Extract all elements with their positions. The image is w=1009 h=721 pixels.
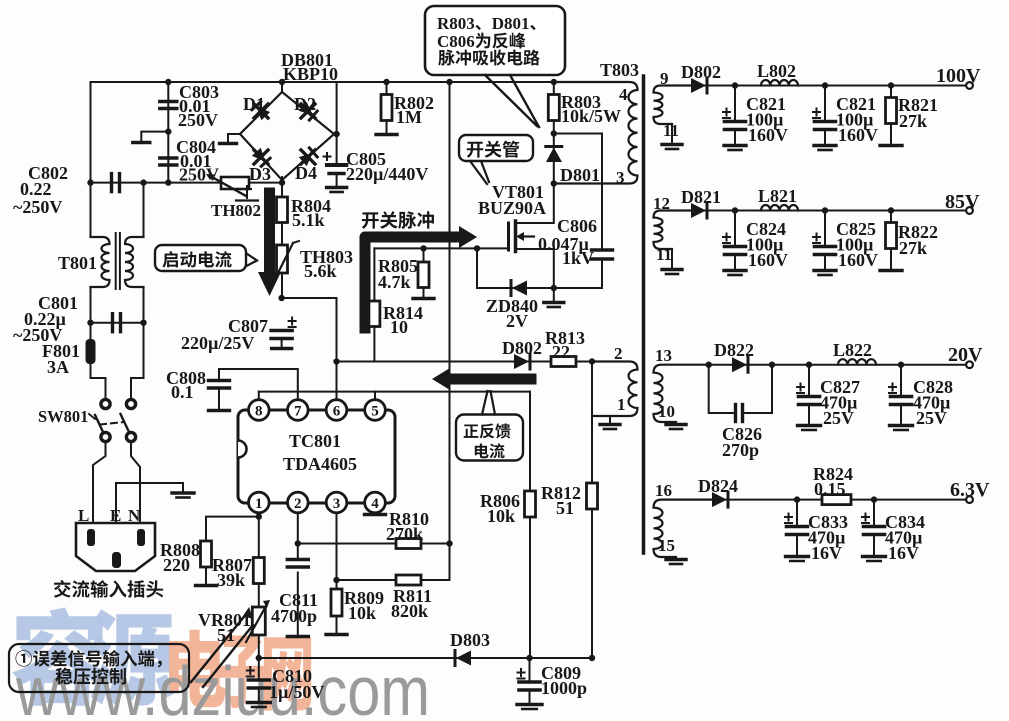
svg-text:D4: D4: [295, 163, 317, 183]
wire C803/C804 column: [167, 82, 169, 183]
pin 6: [326, 400, 347, 421]
svg-text:0.15: 0.15: [814, 479, 846, 499]
svg-text:11: 11: [656, 245, 672, 264]
svg-text:D802: D802: [502, 338, 542, 358]
watermark 源: [90, 609, 174, 706]
wire 6.3V rail: [712, 499, 966, 501]
svg-text:10k: 10k: [348, 603, 376, 623]
svg-text:D822: D822: [714, 340, 754, 360]
transistor VT801 MOSFET: [507, 223, 510, 250]
transformer T801 left winding: [91, 237, 110, 287]
wire R814 column: [373, 248, 375, 361]
svg-text:25V: 25V: [916, 408, 947, 428]
svg-text:51: 51: [217, 625, 235, 645]
ground C810: [247, 701, 270, 704]
svg-text:20V: 20V: [948, 344, 983, 366]
ground earth: [172, 491, 194, 494]
capacitor C804: [160, 156, 177, 159]
node dot R813 right: [589, 358, 595, 364]
switch SW801 dashed link: [100, 422, 124, 425]
resistor R822: [890, 211, 892, 223]
thermistor TH802: [221, 177, 249, 189]
svg-text:L: L: [78, 506, 89, 525]
svg-text:160V: 160V: [748, 250, 788, 270]
wire C810 stem: [258, 658, 260, 679]
ground R809: [336, 616, 338, 633]
capacitor C805: [327, 163, 346, 167]
diode D4: [299, 148, 317, 166]
callout 启动电流: [155, 245, 246, 271]
svg-text:220µ/25V: 220µ/25V: [181, 333, 254, 353]
transformer T803 core: [642, 76, 646, 553]
terminal 85V: [966, 207, 973, 214]
svg-text:27k: 27k: [899, 111, 927, 131]
transformer T803 primary winding 4-3: [554, 82, 638, 184]
svg-text:820k: 820k: [391, 601, 428, 621]
capacitor C807: [271, 329, 292, 333]
svg-text:270p: 270p: [722, 440, 759, 460]
svg-text:5.1k: 5.1k: [292, 210, 325, 230]
switch SW801 lower contacts: [101, 432, 110, 441]
capacitor C833: [796, 500, 798, 525]
node dot pin6 feedback: [333, 358, 339, 364]
capacitor C801: [111, 314, 114, 332]
wire C809 stem: [529, 658, 531, 681]
wire pin3 column: [336, 508, 338, 589]
wire R805 column: [423, 248, 425, 297]
wire bridge left ground link: [228, 134, 240, 142]
svg-text:D2: D2: [294, 94, 316, 114]
node dots C802 row: [87, 179, 93, 185]
ground bridge left: [220, 142, 237, 145]
svg-text:3: 3: [333, 496, 341, 512]
svg-text:3: 3: [616, 168, 625, 187]
resistor R810: [396, 539, 421, 549]
capacitor C834: [873, 500, 875, 525]
ground R822: [880, 269, 902, 272]
svg-text:160V: 160V: [748, 125, 788, 145]
svg-text:D803: D803: [450, 630, 490, 650]
resistor R814: [369, 301, 380, 327]
wire C807 to pin6 column: [282, 298, 337, 400]
wire top rail: [91, 81, 554, 83]
ground MOSFET source: [553, 288, 555, 301]
wire pin7 to C808: [219, 369, 298, 401]
svg-text:TH802: TH802: [211, 201, 261, 220]
diode D3: [252, 148, 270, 166]
pin 4: [365, 492, 386, 513]
AC plug outline: [76, 523, 155, 571]
svg-text:C806: C806: [557, 216, 597, 236]
svg-text:T803: T803: [600, 60, 639, 80]
svg-text:6: 6: [333, 404, 341, 420]
node dots R803: [551, 130, 557, 136]
capacitor C809: [519, 680, 540, 684]
svg-text:51: 51: [556, 498, 574, 518]
svg-text:R803: R803: [437, 14, 475, 33]
svg-text:250V: 250V: [178, 110, 218, 130]
op-amp U1 IC TC801 TDA4605 body: [238, 410, 395, 503]
annotation arrow start-current: [264, 193, 275, 273]
thermistor TH803: [277, 245, 288, 273]
wire winding1 ground lead: [609, 416, 611, 423]
ground C805: [327, 186, 347, 189]
svg-text:10: 10: [658, 402, 675, 421]
svg-text:2: 2: [294, 496, 302, 512]
svg-text:10k/5W: 10k/5W: [561, 106, 621, 126]
wire R811 row: [337, 544, 450, 581]
svg-text:D801: D801: [492, 14, 530, 33]
capacitor C826 branch: [709, 365, 733, 413]
wire 85V rail: [691, 210, 966, 212]
terminal 100V: [966, 82, 973, 89]
svg-text:5.6k: 5.6k: [304, 261, 337, 281]
resistor R807: [253, 558, 264, 584]
resistor R805: [418, 262, 429, 288]
label 交流输入插头: [54, 580, 163, 598]
svg-text:SW801: SW801: [38, 407, 88, 426]
fuse F801: [86, 339, 96, 364]
node dots 85V: [732, 207, 738, 213]
IC notch: [238, 441, 247, 458]
capacitor C803: [160, 100, 177, 103]
wire D803 row: [259, 657, 592, 659]
ground winding 9-11: [662, 143, 682, 146]
svg-text:7: 7: [294, 404, 302, 420]
resistor R803: [548, 95, 559, 121]
svg-text:2: 2: [614, 344, 623, 363]
svg-text:22: 22: [552, 342, 570, 362]
svg-text:BUZ90A: BUZ90A: [478, 198, 546, 218]
node dot pin1 row: [256, 513, 262, 519]
callout snubber note box: [425, 6, 565, 75]
resistor R811: [396, 575, 421, 585]
ground near C803: [133, 141, 150, 144]
diode D822: [732, 357, 747, 372]
annotation arrows to VR801: [191, 613, 247, 682]
svg-text:D3: D3: [249, 164, 271, 184]
resistor R821: [890, 86, 892, 98]
capacitor C811: [287, 558, 308, 561]
label 开关脉冲: [362, 211, 434, 228]
watermark 容: [12, 607, 106, 705]
pin 8: [248, 400, 269, 421]
svg-text:4.7k: 4.7k: [378, 272, 411, 292]
wire R806 column: [529, 392, 531, 658]
diode D802 snubber-row: [514, 354, 529, 369]
svg-text:3A: 3A: [47, 357, 69, 377]
svg-text:8: 8: [255, 404, 263, 420]
svg-text:6.3V: 6.3V: [950, 479, 990, 501]
inductor L821: [761, 205, 798, 211]
svg-text:D821: D821: [681, 187, 721, 207]
svg-text:85V: 85V: [945, 191, 980, 213]
ground pin4: [365, 513, 386, 516]
svg-text:39k: 39k: [217, 570, 245, 590]
svg-text:D824: D824: [698, 476, 738, 496]
diode D803: [456, 651, 471, 666]
watermark 网: [264, 637, 311, 710]
terminal 6.3V: [966, 496, 973, 503]
svg-text:12: 12: [653, 194, 670, 213]
svg-text:2V: 2V: [506, 311, 528, 331]
ground winding 1: [600, 423, 620, 426]
wire C811 stem: [297, 573, 299, 636]
diode D802 rectifier: [691, 78, 706, 93]
wire 20V rail: [709, 364, 966, 366]
ground R821: [880, 144, 902, 147]
switch SW801 upper contacts: [101, 399, 110, 408]
capacitor C824: [734, 211, 736, 246]
svg-text:0.22: 0.22: [20, 179, 52, 199]
pin 7: [288, 400, 309, 421]
capacitor C821 at x825: [824, 86, 826, 121]
capacitor C810: [248, 678, 269, 682]
wire R812 column: [591, 362, 593, 659]
node dots D803 row: [256, 655, 262, 661]
svg-text:16V: 16V: [888, 543, 919, 563]
ground R802: [376, 133, 397, 136]
wire bridge bottom stub: [281, 177, 283, 183]
pin 3: [326, 492, 347, 513]
diode D1: [252, 102, 270, 120]
svg-text:L822: L822: [833, 340, 872, 360]
diode D821: [691, 203, 706, 218]
wire fuse column to plug L: [91, 323, 106, 399]
node dot C807: [278, 295, 284, 301]
resistor R812: [587, 483, 598, 509]
wire ground link C803: [141, 132, 168, 141]
switch SW801 arms: [95, 415, 104, 433]
wire C806 column: [554, 134, 602, 250]
diode D801: [546, 145, 562, 148]
svg-text:11: 11: [663, 121, 679, 140]
capacitor C825: [824, 211, 826, 246]
wire feedback row pin6 to T803 pin2: [337, 361, 593, 363]
svg-text:220: 220: [163, 555, 190, 575]
ground R808: [205, 567, 207, 584]
ground winding 16-15: [666, 558, 686, 561]
pin 5: [365, 400, 386, 421]
wire pin4 ground stub: [374, 508, 376, 513]
svg-text:220µ/440V: 220µ/440V: [346, 164, 428, 184]
node dot C803 mid: [165, 128, 171, 134]
svg-text:16V: 16V: [811, 543, 842, 563]
svg-text:C806: C806: [437, 32, 475, 51]
node dots C801 row: [87, 320, 93, 326]
ground R805: [413, 297, 434, 300]
svg-text:160V: 160V: [838, 250, 878, 270]
svg-text:27k: 27k: [899, 238, 927, 258]
wire pin2 column: [297, 508, 299, 558]
svg-text:15: 15: [658, 536, 675, 555]
capacitor C806: [592, 248, 613, 251]
resistor R802: [386, 82, 388, 95]
ground C811: [287, 635, 308, 638]
wire T801 right column: [143, 183, 145, 237]
ground winding 12-11: [662, 268, 682, 271]
svg-text:KBP10: KBP10: [283, 64, 338, 84]
svg-text:100V: 100V: [936, 65, 981, 87]
svg-text:E: E: [110, 506, 121, 525]
ground winding 13-10: [666, 423, 686, 426]
ground C809: [517, 703, 542, 706]
node dots rail: [165, 79, 171, 85]
capacitor C821 at x735: [734, 86, 736, 121]
node dots 6.3V: [794, 496, 800, 502]
svg-text:1µ/50V: 1µ/50V: [269, 682, 324, 702]
T803 secondary winding 9-11: [654, 86, 692, 125]
svg-text:4: 4: [619, 85, 628, 104]
annotation arrow switch-pulse: [365, 237, 459, 328]
svg-text:L821: L821: [758, 186, 797, 206]
watermark 子: [219, 635, 264, 708]
wire C805 column: [336, 82, 338, 163]
transformer T801 core: [115, 233, 117, 289]
node dot bridge right: [333, 131, 339, 137]
svg-text:L802: L802: [757, 61, 796, 81]
diode D2: [299, 102, 317, 120]
svg-text:D801: D801: [560, 165, 600, 185]
wire switch to plug: [93, 442, 106, 523]
resistor R804: [277, 197, 288, 223]
resistor R809: [331, 589, 342, 616]
svg-text:4700p: 4700p: [271, 606, 317, 626]
svg-text:10: 10: [390, 317, 408, 337]
T803 secondary winding 13-10: [654, 365, 709, 422]
wire pin8-pin5 row: [259, 391, 530, 393]
wire gate row: [374, 247, 508, 249]
bridge DB801 arms: [240, 92, 282, 134]
svg-text:13: 13: [655, 346, 672, 365]
capacitor C802: [110, 174, 113, 192]
T803 secondary winding 16-15: [654, 500, 713, 557]
wire R804 TH803 column: [281, 183, 283, 298]
capacitor C827: [808, 365, 810, 395]
svg-text:4: 4: [371, 496, 379, 512]
node dots 100V: [732, 82, 738, 88]
annotation arrow feedback-current: [450, 374, 531, 385]
svg-text:1kV: 1kV: [562, 248, 594, 268]
wire R808 row: [206, 517, 259, 541]
svg-text:160V: 160V: [838, 125, 878, 145]
callout 正反馈电流: [456, 415, 523, 461]
wire C801 row: [91, 322, 144, 324]
AC plug slot L: [87, 529, 95, 546]
node dot source: [551, 285, 557, 291]
inductor L802: [761, 80, 798, 86]
wire B+ sense column: [449, 82, 451, 544]
wire R810 row: [298, 543, 450, 545]
svg-text:1M: 1M: [396, 107, 422, 127]
svg-text:5: 5: [371, 404, 379, 420]
wire bridge top stub: [281, 82, 283, 92]
svg-text:D1: D1: [243, 94, 265, 114]
wire 100V rail: [691, 85, 966, 87]
svg-text:T801: T801: [58, 253, 97, 273]
inductor L822: [838, 359, 876, 364]
wire plug N column: [131, 323, 144, 399]
wire pin1 column: [258, 508, 260, 658]
svg-text:TC801: TC801: [289, 431, 341, 451]
wire left AC column: [90, 82, 92, 183]
AC plug slot N: [137, 529, 145, 546]
resistor R824: [822, 495, 851, 505]
wire earth E: [116, 483, 183, 523]
variable resistor VR801: [252, 607, 265, 635]
svg-text:16: 16: [655, 481, 672, 500]
pin 1: [248, 492, 269, 513]
AC plug slot E: [112, 552, 121, 568]
svg-text:1000p: 1000p: [541, 678, 587, 698]
svg-text:0.1: 0.1: [171, 382, 194, 402]
T803 secondary winding 12-11: [654, 211, 692, 250]
wire T801 left column: [90, 183, 92, 237]
svg-text:TDA4605: TDA4605: [283, 454, 357, 474]
svg-text:~250V: ~250V: [13, 197, 62, 217]
svg-text:N: N: [128, 506, 141, 525]
svg-text:270k: 270k: [386, 524, 423, 544]
node dots R810 R811: [295, 540, 301, 546]
svg-text:10k: 10k: [487, 506, 515, 526]
zener ZD840: [512, 281, 527, 296]
diode D824: [712, 492, 727, 507]
svg-text:9: 9: [660, 69, 669, 88]
svg-text:1: 1: [255, 496, 263, 512]
wire ZD840 row: [477, 248, 602, 288]
svg-text:1: 1: [617, 395, 626, 414]
node dots 20V: [706, 362, 712, 368]
callout error-signal note box: [9, 644, 189, 692]
resistor R806: [525, 491, 536, 517]
arrow to C806: [521, 235, 534, 237]
svg-text:25V: 25V: [823, 408, 854, 428]
svg-text:D802: D802: [681, 62, 721, 82]
wire R803 column: [553, 82, 555, 184]
resistor R808: [201, 541, 212, 567]
transformer T801 right winding: [125, 237, 144, 287]
capacitor C828: [900, 365, 902, 395]
watermark 电: [169, 630, 226, 708]
pin 2: [288, 492, 309, 513]
resistor R813: [551, 357, 576, 367]
terminal 20V: [966, 361, 973, 368]
transformer T803 feedback winding 2-1: [592, 362, 638, 417]
wire C802 row: [91, 182, 283, 184]
node dots gate row: [420, 245, 426, 251]
capacitor C808: [209, 379, 230, 382]
callout 开关管: [459, 135, 533, 161]
